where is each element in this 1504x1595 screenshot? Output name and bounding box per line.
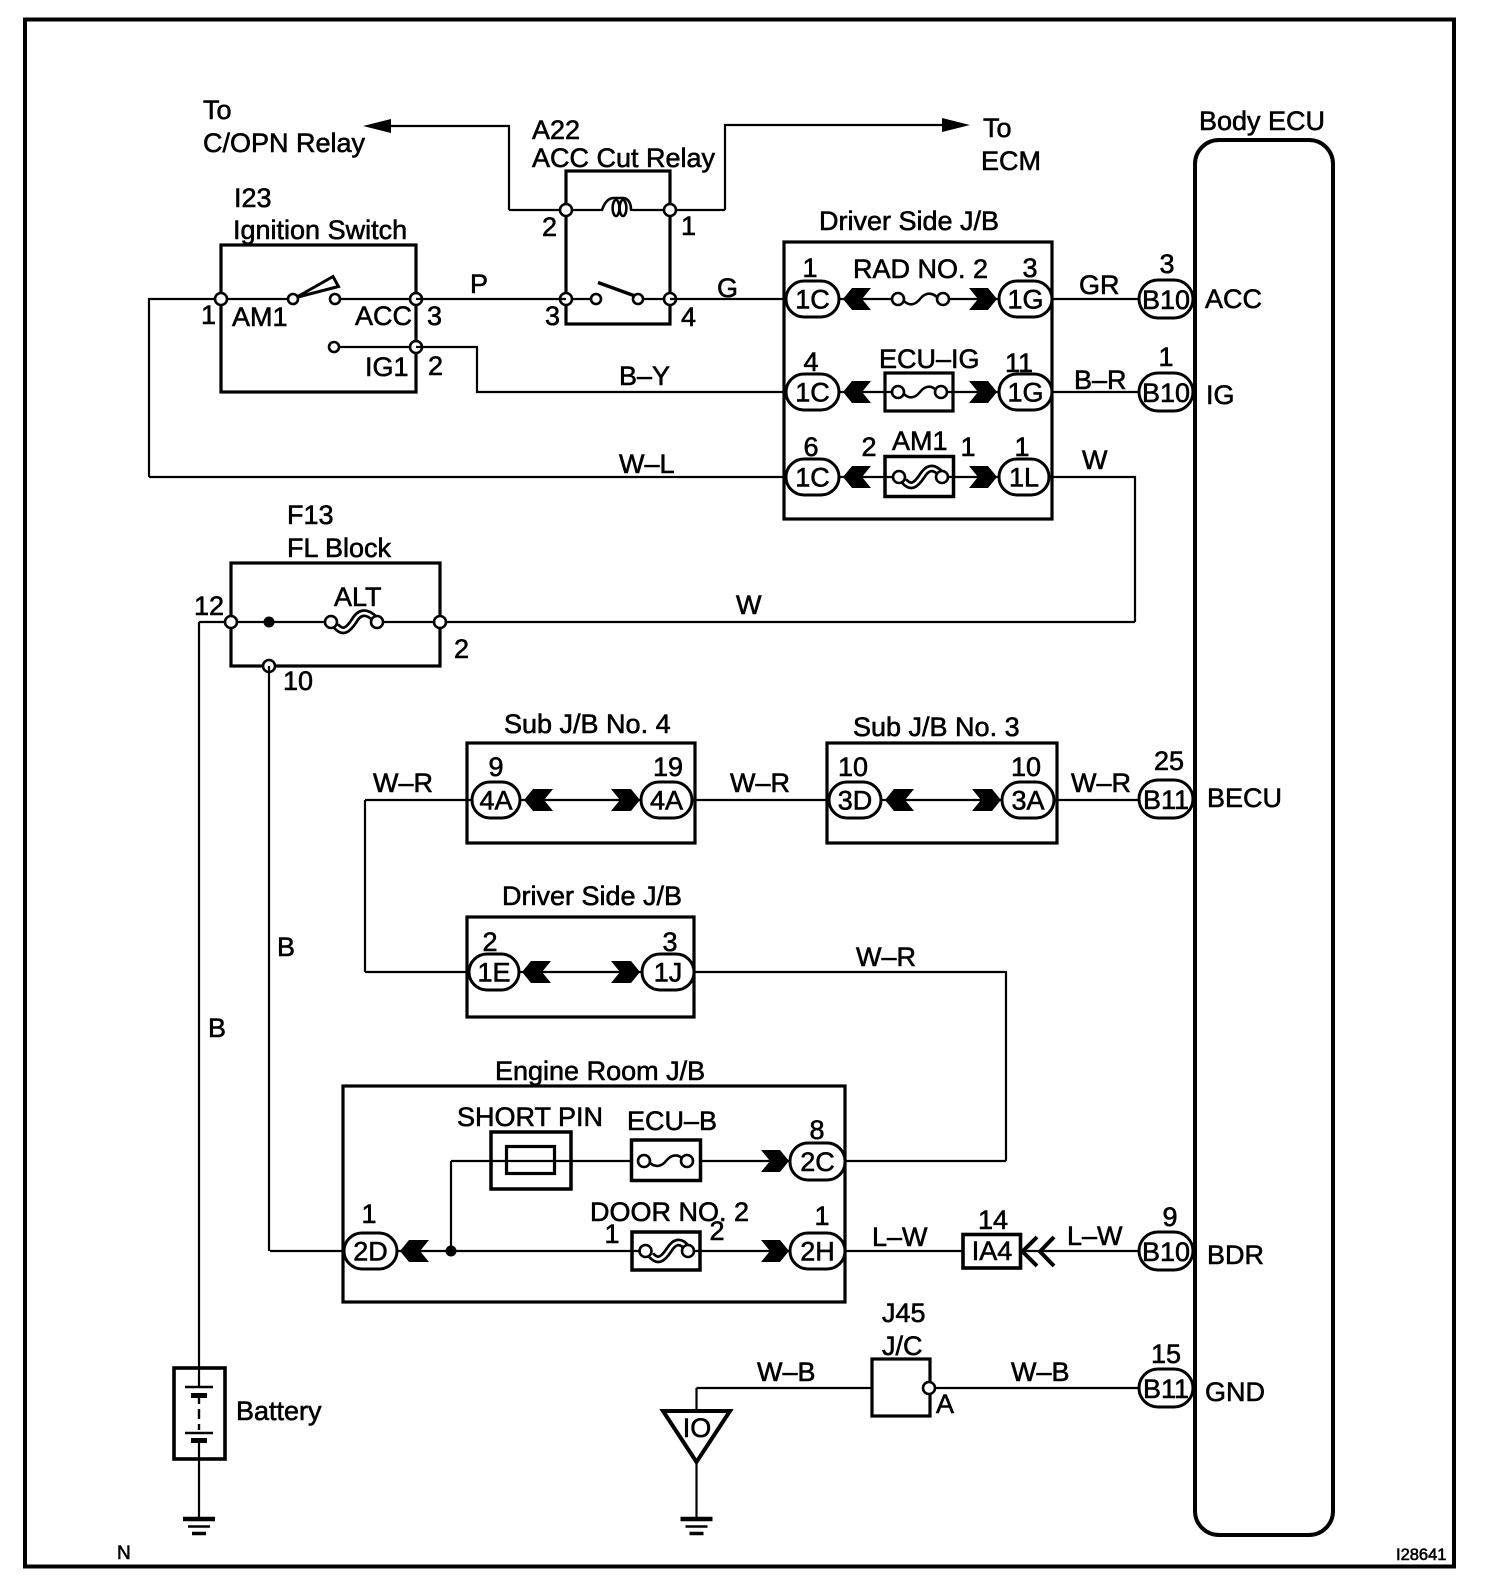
svg-text:3D: 3D <box>838 786 873 816</box>
wire short pin row <box>451 1160 790 1162</box>
ignition switch ACC internal wire <box>340 298 416 300</box>
svg-text:I23: I23 <box>234 183 272 213</box>
wire from 2C up to 1J <box>845 1160 1006 1162</box>
svg-text:W: W <box>1082 445 1108 475</box>
wire W-B left <box>697 1387 873 1389</box>
wire into 1E <box>365 971 469 973</box>
svg-text:B: B <box>277 932 295 962</box>
svg-text:25: 25 <box>1154 746 1184 776</box>
svg-text:9: 9 <box>1162 1202 1177 1232</box>
F13 pin2 terminal <box>434 616 446 628</box>
wire W-R drop to Driver Side J/B <box>364 800 366 972</box>
connector 2H pin1 <box>790 1233 845 1269</box>
svg-text:1C: 1C <box>795 463 830 493</box>
svg-text:W–B: W–B <box>757 1357 816 1387</box>
Engine Room J/B box <box>343 1086 845 1302</box>
SHORT PIN outer box <box>491 1132 571 1189</box>
connector 1J pin3 <box>642 954 694 990</box>
svg-text:4: 4 <box>803 347 818 377</box>
svg-text:10: 10 <box>838 752 868 782</box>
battery body <box>174 1368 225 1459</box>
relay switch wires <box>566 298 670 300</box>
svg-text:RAD NO. 2: RAD NO. 2 <box>853 254 988 284</box>
svg-text:1L: 1L <box>1009 463 1039 493</box>
junction node on F13 row <box>264 617 275 628</box>
DSJB2 left arrow <box>522 961 551 983</box>
ignition switch AM1 internal wire <box>221 298 288 300</box>
IO ground symbol <box>681 1519 713 1534</box>
wire W from 1L <box>1049 477 1135 622</box>
ignition switch pin3 terminal <box>410 293 422 305</box>
svg-text:IG: IG <box>1206 380 1235 410</box>
connector 1E pin2 <box>469 954 519 990</box>
Sub3 internal wire <box>881 799 1002 801</box>
relay coil wires <box>566 209 670 211</box>
svg-text:ECM: ECM <box>981 146 1041 176</box>
row2 left arrow <box>843 381 871 403</box>
connector 1C pin6 <box>786 459 839 495</box>
svg-text:Sub J/B No. 4: Sub J/B No. 4 <box>504 709 671 739</box>
svg-text:B10: B10 <box>1142 285 1190 315</box>
svg-text:GR: GR <box>1079 270 1120 300</box>
svg-text:L–W: L–W <box>1067 1221 1123 1251</box>
battery plate short thick bottom <box>191 1438 207 1443</box>
svg-text:ECU–IG: ECU–IG <box>879 344 980 374</box>
svg-text:1G: 1G <box>1007 378 1043 408</box>
svg-text:Driver Side J/B: Driver Side J/B <box>502 881 682 911</box>
svg-text:Battery: Battery <box>236 1396 322 1426</box>
svg-text:IA4: IA4 <box>972 1236 1013 1266</box>
wire relay pin2 <box>509 209 566 211</box>
wire W-R from 1J <box>694 972 1006 1161</box>
row1 right arrow <box>969 288 997 310</box>
svg-text:3: 3 <box>427 301 442 331</box>
svg-text:2: 2 <box>482 927 497 957</box>
svg-text:A22: A22 <box>532 115 580 145</box>
svg-text:ACC Cut Relay: ACC Cut Relay <box>532 143 716 173</box>
relay pin 4 terminal <box>664 293 676 305</box>
svg-text:3: 3 <box>1022 253 1037 283</box>
svg-text:10: 10 <box>1011 752 1041 782</box>
arrow to ECM <box>942 118 970 132</box>
wire G <box>670 298 786 300</box>
fuse ECU-IG box <box>885 373 953 411</box>
Body ECU body <box>1195 140 1333 1535</box>
connector B10 BDR pin9 <box>1139 1232 1193 1270</box>
IO ground wire <box>695 1462 697 1517</box>
wire GR <box>1052 298 1139 300</box>
svg-text:W–R: W–R <box>856 942 916 972</box>
wire B from pin10 <box>268 666 270 1251</box>
wire to ECM <box>725 125 944 210</box>
svg-text:W–R: W–R <box>373 768 433 798</box>
svg-text:I28641: I28641 <box>1396 1546 1446 1564</box>
connector 1G pin11 <box>999 374 1052 410</box>
wire W-R to BECU <box>1054 799 1139 801</box>
svg-text:1: 1 <box>1014 432 1029 462</box>
Sub4 left arrow <box>524 789 553 811</box>
svg-text:1: 1 <box>802 253 817 283</box>
ignition switch lever <box>296 277 339 298</box>
svg-text:G: G <box>717 273 738 303</box>
wire B-Y <box>416 347 786 392</box>
IO ground triangle <box>663 1411 730 1462</box>
ignition switch IG1 wire <box>339 346 416 348</box>
svg-text:2D: 2D <box>353 1237 388 1267</box>
row3 internal wires <box>839 476 999 478</box>
connector B11 GND pin15 <box>1139 1369 1193 1407</box>
svg-text:Engine Room J/B: Engine Room J/B <box>495 1056 705 1086</box>
2C right arrow <box>761 1150 789 1172</box>
wire W-L <box>149 476 786 478</box>
ignition switch pin1 terminal <box>215 293 227 305</box>
fusible link AM1 box <box>885 457 954 497</box>
svg-text:F13: F13 <box>287 500 334 530</box>
svg-text:To: To <box>983 113 1012 143</box>
DSJB2 internal wire <box>519 971 642 973</box>
svg-text:IG1: IG1 <box>365 352 409 382</box>
svg-text:B–Y: B–Y <box>619 361 670 391</box>
svg-text:2: 2 <box>861 432 876 462</box>
battery plate long bottom <box>185 1432 213 1435</box>
svg-text:W–R: W–R <box>1071 768 1131 798</box>
row2 internal wires <box>839 391 999 393</box>
relay switch contacts <box>591 294 601 304</box>
wire W-R into Sub J/B No. 4 <box>365 799 472 801</box>
F13 pin10 terminal <box>263 660 275 672</box>
relay pin 3 terminal <box>560 293 572 305</box>
svg-text:2C: 2C <box>800 1147 835 1177</box>
svg-text:P: P <box>470 269 488 299</box>
arrow to C/OPN Relay <box>363 119 391 133</box>
svg-text:Ignition Switch: Ignition Switch <box>233 215 407 245</box>
svg-text:4A: 4A <box>479 786 512 816</box>
wire B-R <box>1052 391 1139 393</box>
wire AM1 feed left <box>149 299 221 477</box>
wire W-R between sub J/Bs <box>692 799 829 801</box>
row2 right arrow <box>969 381 997 403</box>
fusible link DOOR NO. 2 box <box>632 1232 700 1270</box>
wire to C/OPN Relay <box>389 126 509 210</box>
ignition switch IG1 contact <box>329 342 339 352</box>
svg-text:J45: J45 <box>882 1298 926 1328</box>
svg-text:3A: 3A <box>1011 786 1044 816</box>
relay A22 body <box>566 171 670 324</box>
connector IA4 pin14 <box>963 1235 1021 1269</box>
svg-text:Sub J/B No. 3: Sub J/B No. 3 <box>853 712 1020 742</box>
connector 3D pin10 <box>829 782 881 818</box>
double chevron arrows <box>1023 1237 1055 1266</box>
svg-text:12: 12 <box>194 591 224 621</box>
svg-text:2H: 2H <box>800 1237 835 1267</box>
svg-text:AM1: AM1 <box>892 426 948 456</box>
connector 2C pin8 <box>790 1143 845 1180</box>
svg-text:11: 11 <box>1005 348 1033 378</box>
svg-text:B10: B10 <box>1142 1237 1190 1267</box>
svg-text:19: 19 <box>653 752 683 782</box>
svg-text:AM1: AM1 <box>232 302 288 332</box>
svg-text:1: 1 <box>604 1219 619 1249</box>
2H right arrow <box>761 1240 789 1262</box>
battery center dashed line <box>198 1398 200 1430</box>
row3 left arrow <box>843 466 871 488</box>
svg-text:1G: 1G <box>1007 285 1043 315</box>
svg-text:FL Block: FL Block <box>287 533 392 563</box>
battery plate short thick <box>191 1393 207 1398</box>
svg-text:ECU–B: ECU–B <box>627 1106 717 1136</box>
svg-text:1: 1 <box>814 1201 829 1231</box>
svg-text:W: W <box>736 590 762 620</box>
svg-text:1J: 1J <box>654 958 683 988</box>
svg-text:J/C: J/C <box>882 1331 923 1361</box>
svg-text:W–L: W–L <box>619 449 675 479</box>
battery ground <box>183 1519 215 1534</box>
Sub J/B No. 4 box <box>467 743 695 843</box>
svg-text:BDR: BDR <box>1207 1240 1264 1270</box>
connector 4A pin19 <box>641 782 692 818</box>
wire L-W to BDR <box>1021 1250 1139 1252</box>
svg-text:Body ECU: Body ECU <box>1199 106 1325 136</box>
connector 3A pin10 <box>1002 782 1054 818</box>
svg-text:SHORT PIN: SHORT PIN <box>457 1102 603 1132</box>
fusible link ALT <box>336 613 375 630</box>
svg-text:1: 1 <box>681 211 696 241</box>
svg-text:2: 2 <box>709 1216 724 1246</box>
svg-text:B11: B11 <box>1143 1374 1189 1404</box>
svg-text:4: 4 <box>681 302 696 332</box>
junction node 2D row <box>446 1246 457 1257</box>
svg-text:6: 6 <box>803 432 818 462</box>
svg-text:C/OPN Relay: C/OPN Relay <box>203 128 366 158</box>
J45 pin A terminal <box>923 1382 935 1394</box>
svg-text:4A: 4A <box>650 786 683 816</box>
connector B11 BECU pin25 <box>1139 780 1193 818</box>
SHORT PIN inner box <box>507 1147 555 1174</box>
row3 right arrow <box>969 466 997 488</box>
svg-text:W–R: W–R <box>730 768 790 798</box>
svg-text:GND: GND <box>1205 1377 1265 1407</box>
wire F13 row <box>199 621 1135 623</box>
relay coil <box>602 198 631 210</box>
Driver Side J/B box <box>784 242 1052 519</box>
svg-text:1: 1 <box>201 300 216 330</box>
ignition switch AM1 contact <box>288 294 298 304</box>
svg-text:2: 2 <box>542 212 557 242</box>
wire relay pin1 <box>670 209 725 211</box>
wire L-W <box>845 1250 963 1252</box>
2D left arrow <box>400 1240 429 1262</box>
svg-text:1: 1 <box>361 1199 376 1229</box>
F13 pin12 terminal <box>225 616 237 628</box>
wire 2D row <box>270 1250 790 1252</box>
svg-text:BECU: BECU <box>1207 783 1282 813</box>
row1 left arrow <box>843 288 871 310</box>
svg-text:IO: IO <box>683 1413 712 1443</box>
relay pin 1 terminal <box>664 204 676 216</box>
svg-text:L–W: L–W <box>872 1222 928 1252</box>
svg-text:14: 14 <box>978 1205 1008 1235</box>
svg-text:W–B: W–B <box>1011 1357 1070 1387</box>
connector B10 ACC pin3 <box>1139 280 1193 318</box>
connector 1G pin3 <box>999 281 1052 317</box>
row1 internal wires <box>839 298 999 300</box>
svg-text:1C: 1C <box>795 285 830 315</box>
svg-text:1: 1 <box>960 432 975 462</box>
svg-text:2: 2 <box>428 351 443 381</box>
svg-text:8: 8 <box>809 1115 824 1145</box>
Sub J/B No. 3 box <box>827 743 1057 843</box>
battery negative wire <box>198 1443 200 1517</box>
connector 2D pin1 <box>344 1233 397 1269</box>
wire to IO ground <box>695 1388 697 1409</box>
svg-text:1E: 1E <box>477 958 510 988</box>
svg-text:B: B <box>208 1013 226 1043</box>
svg-text:3: 3 <box>662 927 677 957</box>
Sub3 right arrow <box>972 789 1001 811</box>
svg-text:B11: B11 <box>1143 785 1189 815</box>
Sub3 left arrow <box>885 789 914 811</box>
svg-text:3: 3 <box>545 301 560 331</box>
svg-text:B10: B10 <box>1142 378 1190 408</box>
svg-text:ACC: ACC <box>355 301 412 331</box>
svg-text:ALT: ALT <box>334 582 382 612</box>
relay pin 2 terminal <box>560 204 572 216</box>
wire W-B right <box>935 1387 1139 1389</box>
battery plate long top <box>185 1386 213 1389</box>
svg-text:To: To <box>203 95 232 125</box>
junction connector J45 box <box>872 1359 930 1416</box>
ignition switch pin2 terminal <box>410 341 422 353</box>
Driver Side J/B (second) box <box>467 917 694 1017</box>
connector 1C pin4 <box>786 374 839 410</box>
wire P <box>416 298 566 300</box>
svg-text:10: 10 <box>283 666 313 696</box>
svg-text:A: A <box>936 1389 954 1419</box>
connector B10 IG pin1 <box>1139 373 1193 411</box>
DSJB2 right arrow <box>611 961 640 983</box>
svg-text:15: 15 <box>1151 1339 1181 1369</box>
svg-text:N: N <box>117 1543 131 1564</box>
fuse RAD NO. 2 <box>904 294 937 305</box>
svg-text:2: 2 <box>454 634 469 664</box>
ignition switch ACC contact <box>330 294 340 304</box>
Sub4 internal wire <box>520 799 641 801</box>
svg-text:9: 9 <box>488 752 503 782</box>
connector 4A pin9 <box>472 782 520 818</box>
svg-text:1C: 1C <box>795 378 830 408</box>
svg-text:3: 3 <box>1159 249 1174 279</box>
ignition switch I23 body <box>221 245 416 392</box>
wire B battery feed <box>198 622 200 1386</box>
connector 1L pin1 <box>999 459 1049 495</box>
svg-text:1: 1 <box>1158 342 1173 372</box>
wire short pin drop <box>450 1161 452 1251</box>
FL block F13 body <box>231 563 440 666</box>
fuse ECU-B box <box>632 1140 701 1181</box>
svg-text:Driver Side J/B: Driver Side J/B <box>819 206 999 236</box>
svg-text:ACC: ACC <box>1205 284 1262 314</box>
Sub4 right arrow <box>611 789 640 811</box>
relay switch lever <box>598 283 635 297</box>
svg-text:B–R: B–R <box>1074 365 1127 395</box>
connector 1C pin1 <box>786 281 839 317</box>
